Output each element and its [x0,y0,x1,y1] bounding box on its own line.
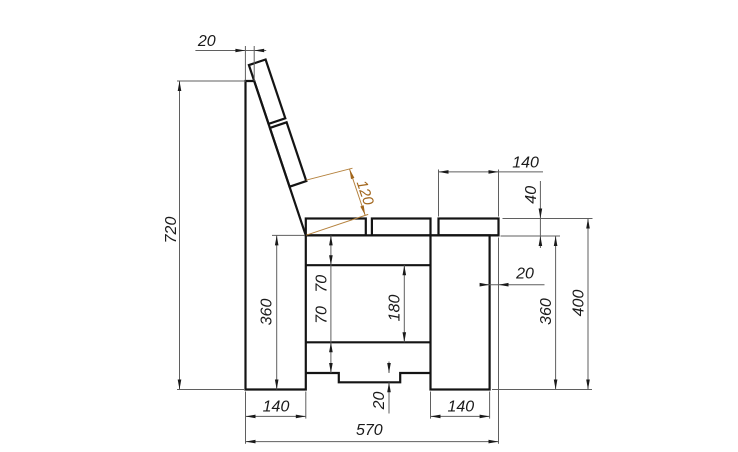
svg-text:140: 140 [263,399,290,416]
dimension 180 (opening height) [403,265,405,342]
svg-text:70: 70 [313,275,330,293]
dimension 720 (overall height, left) [179,81,181,390]
svg-text:180: 180 [387,295,404,322]
dimension 40 (seat slat thickness) [539,181,541,248]
svg-text:360: 360 [538,298,555,325]
svg-text:40: 40 [523,186,540,204]
dimension 20 (seat overhang, right) [480,284,544,286]
svg-text:20: 20 [197,33,216,50]
front leg [431,235,490,389]
dimension 140 (seat slat width, top right) [439,171,544,173]
dimension 360 (back leg height) [276,235,278,389]
backrest slat (upper board) [249,60,285,124]
dimension 140 (front leg width, bottom right) [431,415,490,417]
svg-text:400: 400 [571,290,588,317]
svg-text:20: 20 [371,392,388,411]
dimension 20 (stretcher notch depth) [388,362,390,374]
seat rail top edge / leg tops [306,234,499,236]
svg-text:20: 20 [515,266,534,283]
bottom stretcher lower edge with notch [306,373,431,382]
svg-text:570: 570 [356,422,383,439]
svg-text:70: 70 [313,306,330,324]
svg-text:140: 140 [447,399,474,416]
dimension 140 (back leg width, bottom left) [246,415,306,417]
dimension 400 (seat height, far right) [587,219,589,390]
dimension 70 / 70 (rail heights, shared dim line) [330,235,332,373]
back leg (slanted support post) [246,81,306,390]
bottom stretcher top edge [306,341,431,343]
svg-text:140: 140 [512,155,539,172]
dimension 20 (top, post thickness) [195,50,266,52]
svg-text:720: 720 [163,217,180,244]
svg-text:360: 360 [258,299,275,326]
dimension 360 (front leg height, right) [555,236,557,390]
backrest slat (lower board) [270,122,306,186]
dimension 570 (overall depth) [246,441,499,443]
seat slat 3 (front) [439,219,499,236]
dimension 120 (backrest slat width, oblique, orange) [306,168,353,180]
seat slat 1 (rear) [306,219,366,236]
seat apron rail bottom edge [306,264,431,266]
seat slat 2 (middle) [372,219,431,236]
